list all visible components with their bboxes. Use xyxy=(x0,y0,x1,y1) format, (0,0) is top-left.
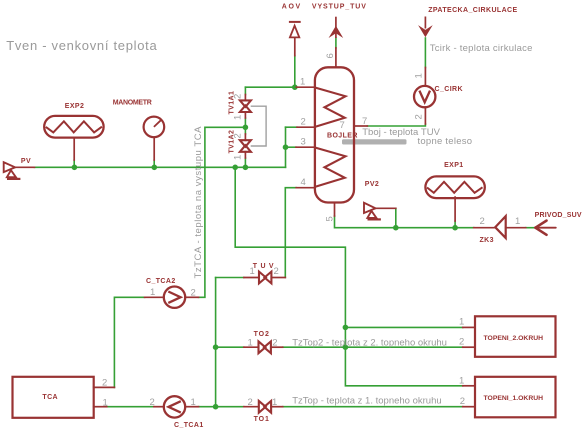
boiler coil 2 xyxy=(315,148,346,187)
svg-text:BOJLER: BOJLER xyxy=(327,133,358,140)
wire vertical TUV to TO1 xyxy=(215,278,217,407)
svg-text:7: 7 xyxy=(340,120,345,131)
wire C_TCA2 pin1 to TCA pin2 xyxy=(114,297,144,387)
svg-text:5: 5 xyxy=(325,216,336,221)
pin stub C_CIRK pin1 xyxy=(424,68,426,87)
pin stub TOPENI_1 pin2 xyxy=(463,406,475,408)
svg-text:EXP1: EXP1 xyxy=(444,162,464,169)
svg-text:PV: PV xyxy=(21,158,31,165)
pin stub boiler pin3 xyxy=(296,146,315,148)
pin stub TO1 pin2 xyxy=(244,406,259,408)
pin stub ZK3 pin2 xyxy=(474,227,495,229)
svg-text:1: 1 xyxy=(250,266,255,277)
pump C_TCA2 xyxy=(164,287,185,308)
svg-text:PRIVOD_SUV: PRIVOD_SUV xyxy=(535,212,582,219)
safety valve PV xyxy=(4,162,21,179)
svg-text:2: 2 xyxy=(248,397,253,408)
svg-text:2: 2 xyxy=(301,117,306,128)
junction dot main net branch down xyxy=(232,165,238,171)
svg-text:ZK3: ZK3 xyxy=(480,237,494,244)
svg-text:2: 2 xyxy=(274,266,279,277)
pin stub TV1A2 top xyxy=(244,134,246,140)
svg-text:TzTop - teplota z 1. topneho o: TzTop - teplota z 1. topneho okruhu xyxy=(292,395,441,406)
arrow VYSTUP_TUV xyxy=(329,17,344,38)
svg-text:2: 2 xyxy=(480,216,485,227)
wire pin1 horizontal xyxy=(245,86,296,88)
svg-text:2: 2 xyxy=(102,378,107,389)
pin stub boiler pin1 xyxy=(296,86,315,88)
pin stub C_TCA1 pin2 xyxy=(154,406,163,408)
svg-text:C_CIRK: C_CIRK xyxy=(435,86,463,93)
svg-text:2: 2 xyxy=(459,337,464,348)
wire ZK3 to PRIVOD_SUV xyxy=(526,227,536,229)
valve TUV xyxy=(259,272,271,284)
svg-text:C_TCA2: C_TCA2 xyxy=(146,278,176,285)
svg-text:1: 1 xyxy=(272,397,277,408)
wire C_CIRK pin2 to boiler pin7 xyxy=(367,124,425,126)
boiler BOJLER outline xyxy=(315,67,354,202)
safety outlet AOV xyxy=(289,22,301,38)
svg-text:TzTop2 - teplota z 2. topneho: TzTop2 - teplota z 2. topneho okruhu xyxy=(292,338,447,349)
svg-text:EXP2: EXP2 xyxy=(65,103,85,110)
svg-text:6: 6 xyxy=(325,53,336,58)
pin stub TCA pin1 xyxy=(94,406,107,408)
wire TUV left xyxy=(216,277,244,279)
wire TV1A2 bottom xyxy=(244,158,246,167)
wire TCA pin1 to C_TCA1 xyxy=(107,406,154,408)
junction dot TV1A2 bottom xyxy=(243,165,249,171)
pin stub EXP1 xyxy=(454,197,456,221)
svg-text:1: 1 xyxy=(300,77,305,88)
junction dot TO2 left xyxy=(213,344,219,350)
svg-text:1: 1 xyxy=(233,155,244,160)
svg-text:ZPATECKA_CIRKULACE: ZPATECKA_CIRKULACE xyxy=(428,7,517,14)
wire TV1A1 top xyxy=(244,87,246,94)
svg-text:2: 2 xyxy=(150,397,155,408)
svg-text:Tcirk - teplota cirkulace: Tcirk - teplota cirkulace xyxy=(430,43,533,54)
pin stub TV1A1 top xyxy=(244,95,246,101)
svg-text:2: 2 xyxy=(191,288,196,299)
svg-text:TCA: TCA xyxy=(42,394,58,401)
junction dot EXP1 xyxy=(452,225,458,231)
wire pin2 horizontal xyxy=(286,126,298,128)
pin stub TO1 pin1 xyxy=(271,406,283,408)
svg-text:2: 2 xyxy=(460,396,465,407)
pin stub TUV pin2 xyxy=(271,277,285,279)
svg-text:2: 2 xyxy=(233,94,244,99)
svg-text:topne teleso: topne teleso xyxy=(418,136,473,147)
pin stub VYSTUP_TUV xyxy=(335,48,337,67)
pin stub TCA pin2 xyxy=(94,386,115,388)
wire between TV1A1 TV1A2 xyxy=(244,118,246,134)
svg-text:MANOMETR: MANOMETR xyxy=(113,100,152,107)
wire net to TOPENI_1 pin1 via corners xyxy=(235,167,463,385)
pin stub ZK3 pin1 xyxy=(506,227,526,229)
wire AOV vertical xyxy=(294,56,296,88)
svg-text:PV2: PV2 xyxy=(365,181,379,188)
wire TO2 run left xyxy=(216,346,244,348)
pin stub boiler pin5 xyxy=(334,203,336,217)
pin stub TOPENI_2 pin1 xyxy=(463,326,475,328)
pin stub boiler pin7 xyxy=(354,125,367,127)
wire TV mid branch to C_TCA2 pin2 xyxy=(199,127,246,297)
junction dot MANOMETR xyxy=(152,165,158,171)
pin stub TO2 pin2 xyxy=(271,346,283,348)
junction dot TV mid xyxy=(243,125,249,131)
gray heating element bar xyxy=(342,139,407,144)
valve TV1A1 xyxy=(240,100,251,112)
pin stub TV1A2 bottom xyxy=(244,152,246,158)
pump C_TCA1 xyxy=(164,396,185,417)
svg-text:7: 7 xyxy=(362,116,367,127)
svg-text:TzTCA - teplota na vystupu TCA: TzTCA - teplota na vystupu TCA xyxy=(193,126,204,279)
wire pin3 horizontal xyxy=(286,146,297,148)
wire TOPENI_2 pin1 branch xyxy=(345,326,462,328)
svg-text:AOV: AOV xyxy=(282,4,302,11)
junction dot TO1 left xyxy=(213,404,219,410)
pin stub TOPENI_1 pin1 xyxy=(463,385,475,387)
box TOPENI_2.OKRUH xyxy=(475,316,556,357)
wire C_TCA1 to TO1 and TOPENI_1 pin2 xyxy=(199,406,244,408)
expansion vessel EXP1 xyxy=(425,176,484,198)
box TOPENI_1.OKRUH xyxy=(475,377,556,418)
wire EXP2 branch xyxy=(73,160,75,167)
wire vertical pin2-pin3 to main net xyxy=(285,127,287,167)
expansion vessel EXP2 xyxy=(44,116,103,138)
pin stub C_TCA2 pin1 xyxy=(145,296,164,298)
pin stub boiler pin2 xyxy=(297,126,315,128)
wire TUV right up to boiler pin4 xyxy=(285,188,296,278)
pin stub C_TCA2 pin2 xyxy=(185,296,198,298)
arrow ZPATECKA_CIRKULACE xyxy=(418,17,433,38)
svg-text:3: 3 xyxy=(301,137,306,148)
check valve ZK3 xyxy=(495,216,506,238)
wire MANOMETR branch xyxy=(153,160,155,167)
svg-text:1: 1 xyxy=(459,317,464,328)
coupling bracket TV1A1-TV1A2 xyxy=(251,106,266,146)
pin stub C_CIRK pin2 xyxy=(424,107,426,124)
svg-text:2: 2 xyxy=(272,337,277,348)
svg-text:1: 1 xyxy=(248,337,253,348)
pin stub PV xyxy=(15,166,34,168)
wire ZPATECKA to C_CIRK pin1 xyxy=(424,38,426,68)
pin stub PV2 xyxy=(376,207,396,209)
svg-text:Tven - venkovní teplota: Tven - venkovní teplota xyxy=(6,38,157,53)
svg-text:1: 1 xyxy=(414,73,425,78)
valve TV1A2 xyxy=(240,140,251,152)
safety valve PV2 xyxy=(364,203,381,220)
valve TO1 xyxy=(259,401,271,413)
wire PV2 branch xyxy=(395,208,397,227)
wire main horizontal net y=167.3 xyxy=(34,166,285,168)
svg-text:4: 4 xyxy=(301,177,306,188)
pin stub TV1A1 bottom xyxy=(244,112,246,118)
svg-text:C_TCA1: C_TCA1 xyxy=(174,422,204,429)
valve TO2 xyxy=(259,341,271,353)
svg-text:1: 1 xyxy=(103,397,108,408)
pin stub EXP2 xyxy=(73,138,75,160)
box TCA xyxy=(13,377,94,418)
svg-text:2: 2 xyxy=(414,114,425,119)
boiler coil 1 xyxy=(315,88,346,127)
wire boiler pin5 bottom run xyxy=(335,216,474,228)
pin stub TO2 pin1 xyxy=(244,346,259,348)
junction dot EXP2 xyxy=(72,165,78,171)
junction dot TOPENI_2 pin1 xyxy=(343,325,349,331)
svg-text:TOPENI_1.OKRUH: TOPENI_1.OKRUH xyxy=(484,395,544,402)
junction dot TO2 cross xyxy=(343,344,349,350)
wire EXP1 branch xyxy=(454,221,456,228)
gauge MANOMETR xyxy=(144,117,165,138)
svg-text:1: 1 xyxy=(515,216,520,227)
pin stub TUV pin1 xyxy=(244,277,259,279)
pin stub C_TCA1 pin1 xyxy=(186,406,199,408)
wire TO2 run right to TOPENI_2 pin2 xyxy=(283,346,463,348)
svg-text:1: 1 xyxy=(459,376,464,387)
junction dot AOV/pin1 xyxy=(292,84,298,90)
svg-text:TO2: TO2 xyxy=(254,331,270,338)
pin stub AOV xyxy=(294,38,296,56)
junction dot PV2 xyxy=(393,225,399,231)
junction dot pin3 xyxy=(283,144,289,150)
svg-text:TOPENI_2.OKRUH: TOPENI_2.OKRUH xyxy=(484,335,544,342)
svg-text:TO1: TO1 xyxy=(254,416,270,423)
svg-text:1: 1 xyxy=(233,115,244,120)
svg-text:2: 2 xyxy=(233,133,244,138)
pin stub TOPENI_2 pin2 xyxy=(463,346,475,348)
pin stub MANOMETR xyxy=(153,137,155,160)
svg-text:1: 1 xyxy=(150,287,155,298)
pin stub boiler pin4 xyxy=(296,187,315,189)
arrow PRIVOD_SUV xyxy=(535,221,555,235)
svg-text:1: 1 xyxy=(191,397,196,408)
pump C_CIRK xyxy=(414,86,435,107)
svg-text:VYSTUP_TUV: VYSTUP_TUV xyxy=(312,4,367,11)
wire VYSTUP_TUV to pin6 xyxy=(335,38,337,48)
